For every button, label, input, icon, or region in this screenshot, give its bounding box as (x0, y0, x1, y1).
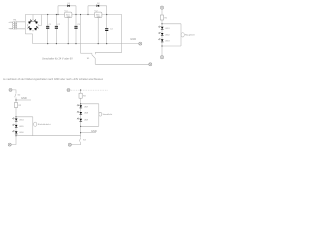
wire transformer secondary top (16, 21, 25, 23)
wire bracket bottom (162, 45, 181, 47)
svg-text:LED1: LED1 (165, 28, 169, 30)
wire 24V feed vertical (80, 15, 82, 54)
diode D1 (67, 3, 71, 7)
svg-text:GND: GND (130, 37, 136, 41)
wire C2 top (55, 15, 57, 26)
junction dots LED block (161, 23, 162, 46)
capacitor C4 (105, 28, 113, 31)
svg-text:Umschalter für 24 V oder 6V: Umschalter für 24 V oder 6V (42, 58, 73, 61)
wire IC1 ground (67, 18, 69, 44)
svg-text:LED7: LED7 (84, 106, 88, 108)
wire lamp supply to terminal (95, 63, 149, 65)
wire C4 top (106, 15, 108, 29)
wire R3 to chain junction (80, 98, 82, 104)
junction (16,116.8) (15, 116, 16, 117)
wire bypass2 left riser (87, 6, 89, 15)
svg-text:LED2: LED2 (165, 34, 169, 36)
junction (76,14.5) (75, 14, 76, 15)
LED D5 (158, 38, 169, 42)
wire bypass1 left riser (57, 6, 59, 15)
wire C3 bottom (75, 29, 77, 44)
connector ellipse (99, 112, 102, 116)
LED D10 (77, 111, 88, 115)
svg-text:LED5: LED5 (19, 126, 23, 128)
IC2 regulator (95, 11, 102, 19)
svg-text:LED6: LED6 (19, 132, 23, 134)
wire bridge top riser (32, 15, 34, 20)
svg-text:LED4: LED4 (19, 120, 23, 122)
LED D11 (77, 118, 88, 122)
wire GND branch (16, 99, 31, 101)
wire transformer secondary bottom (16, 28, 25, 30)
junction (106.7,43.6) (106, 43, 107, 44)
wire transformer primary bottom stub (9, 27, 13, 29)
wire C3 top (75, 15, 77, 26)
wire terminal right (12, 90, 16, 93)
wire to switch (80, 133, 82, 138)
wire chain down to GND junction (80, 126, 82, 132)
wire IC2 ground (97, 18, 99, 44)
junction (88,14.5) (87, 14, 88, 15)
wire bypass1 top (58, 5, 76, 7)
bridge rectifier B1 (27, 19, 39, 31)
wire switch S3 blade (79, 138, 80, 142)
wire C1 top (47, 15, 49, 26)
svg-text:TR1: TR1 (13, 19, 16, 21)
svg-text:LED9: LED9 (84, 119, 88, 121)
svg-text:LED3: LED3 (165, 41, 169, 43)
svg-text:Hauptlicht: Hauptlicht (185, 34, 195, 37)
junction (68.2,43.6) (68, 43, 69, 44)
junction dots middle block (80, 89, 81, 133)
svg-text:IC2: IC2 (95, 11, 98, 13)
wire AC left vertical (24, 15, 26, 34)
wire LED chain (161, 24, 163, 46)
node terminal X5 (9, 88, 12, 91)
wire terminal long right (71, 89, 108, 91)
wire transformer primary top stub (9, 21, 13, 23)
svg-text:GND: GND (91, 129, 97, 133)
wire C4 bottom (106, 31, 108, 44)
svg-text:IC1: IC1 (65, 11, 68, 13)
LED D8 (12, 130, 23, 134)
wire switch S2 blade (15, 94, 16, 98)
junction (76,43.6) (75, 43, 76, 44)
junction (56.4,14.5) (56, 14, 57, 15)
wire junction to R2 (15, 100, 17, 103)
junction (16,100) (15, 99, 16, 100)
wire bottom long wire to middle block (16, 135, 81, 137)
junction (47.7,43.6) (47, 43, 48, 44)
junction (47.7,14.5) (47, 14, 48, 15)
wire switch to junction (15, 98, 17, 101)
LED D6 (12, 118, 23, 122)
transformer TR1 (10, 21, 26, 29)
svg-text:Rückfahrlicht: Rückfahrlicht (38, 123, 51, 126)
wire C1 bottom (47, 29, 49, 44)
wire switch S1 right contact stub (94, 52, 96, 54)
wire 24V feed horizontal to switch (81, 52, 92, 54)
resistor R3 (79, 93, 82, 98)
junction (98.2,43.6) (98, 43, 99, 44)
junction (162,46) (161, 45, 162, 46)
svg-text:LED8: LED8 (84, 113, 88, 115)
resistor R1 (160, 15, 163, 20)
wire R1 to junction (161, 20, 163, 24)
svg-text:Je nachdem ob der Näherungssch: Je nachdem ob der Näherungsschalter nach… (3, 77, 104, 81)
node terminal X4 (160, 56, 163, 59)
junction (80.5,14.5) (80, 14, 81, 15)
LED D9 (77, 104, 88, 108)
LED D7 (12, 124, 23, 128)
connector ellipse (181, 33, 184, 37)
node terminal X7 (67, 89, 70, 92)
capacitor C2 (55, 24, 61, 29)
wire bracket vertical (180, 24, 182, 46)
junction (56.4,43.6) (56, 43, 57, 44)
svg-text:Standlicht: Standlicht (103, 113, 113, 116)
capacitor C3 (74, 24, 80, 29)
junction dots top area (47, 14, 107, 44)
wire chain to bottom terminal (11, 136, 16, 145)
wire 6V feed (95, 15, 121, 53)
wire bridge right riser (39, 15, 42, 26)
wire junction down to R3 (80, 90, 82, 93)
node terminal X2 circle (149, 63, 152, 66)
junction (162,23.8) (161, 23, 162, 24)
wire main +V bus (25, 14, 121, 16)
wire bracket top (16, 116, 33, 118)
junction (16,135.7) (15, 135, 16, 136)
wire ground bus (33, 43, 139, 45)
wire bracket bottom (81, 125, 99, 127)
wire bypass2 right riser (106, 6, 108, 15)
connector ellipse (34, 122, 37, 126)
junction (80.6,103.8) (80, 103, 81, 104)
node terminal X6 (8, 143, 11, 146)
node terminal GND circle (139, 42, 142, 45)
wire bottom AC segment (25, 33, 32, 35)
wire switch bottom to terminal (72, 142, 81, 145)
IC1 regulator (65, 11, 72, 19)
node terminal X8 (68, 143, 71, 146)
resistor R2 (14, 103, 17, 108)
LED D4 (158, 32, 169, 36)
wire R2 to chain junction (15, 108, 17, 117)
diode D2 (97, 3, 101, 7)
wire bridge bottom to ground bus (32, 34, 34, 44)
node terminal X3 (160, 6, 163, 9)
wire bypass1 right riser (75, 6, 77, 15)
wire bracket top (81, 103, 99, 105)
wire LED chain (15, 117, 17, 136)
junction (106.7,14.5) (106, 14, 107, 15)
wire LED chain (80, 104, 82, 127)
junction (80.6,132.7) (80, 132, 81, 133)
wire terminal to R1 (161, 9, 163, 15)
junction (80.6,126.3) (80, 126, 81, 127)
wire bracket vertical (98, 104, 100, 127)
wire bracket vertical (32, 117, 34, 136)
wire C2 bottom (55, 29, 57, 44)
LED D3 (158, 26, 169, 30)
wire switch S1 left contact stub (91, 53, 93, 55)
wire bracket top (162, 23, 181, 25)
wire GND branch right (81, 132, 96, 134)
wire bypass2 top (88, 5, 107, 7)
wire switch common down (94, 58, 96, 64)
junction dots left block (15, 99, 16, 136)
wire chain to bottom terminal (161, 46, 163, 56)
svg-text:GND: GND (21, 96, 27, 100)
junction (80.6,90) (80, 89, 81, 90)
wire switch S1 blade (92, 55, 95, 59)
junction (58,14.5) (57, 14, 58, 15)
capacitor C1 (46, 24, 52, 29)
